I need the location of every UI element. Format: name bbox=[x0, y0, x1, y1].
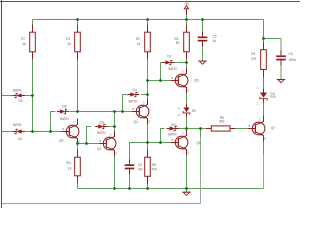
svg-text:D8: D8 bbox=[99, 120, 103, 124]
svg-text:C: C bbox=[182, 132, 184, 136]
svg-text:R4: R4 bbox=[251, 52, 255, 56]
svg-text:A: A bbox=[178, 106, 180, 110]
diode D8 bbox=[95, 126, 98, 128]
node D4 leg bbox=[121, 110, 124, 113]
wire D2 left leg bbox=[161, 63, 165, 81]
svg-text:B: B bbox=[133, 107, 135, 111]
node D6 leg bbox=[49, 130, 52, 133]
svg-text:B: B bbox=[172, 76, 174, 80]
wire rail to R2 bbox=[147, 20, 149, 33]
wire node riser bbox=[200, 129, 202, 139]
svg-text:D2: D2 bbox=[167, 54, 171, 58]
svg-text:1k: 1k bbox=[137, 42, 141, 46]
svg-text:B: B bbox=[100, 139, 102, 143]
svg-text:D10: D10 bbox=[171, 123, 176, 127]
diode D4 bbox=[127, 94, 130, 96]
power +5V symbol bbox=[186, 9, 188, 15]
wire node row to Q4 base bbox=[78, 111, 132, 113]
wire input to D11 bbox=[2, 131, 14, 133]
wire Q5 emitter to D9 bbox=[186, 88, 188, 104]
wire Q7 emitter down bbox=[263, 141, 265, 156]
node R5 riser bbox=[199, 127, 202, 130]
wire D9 to node bbox=[186, 116, 188, 129]
wire D6 to node bbox=[70, 111, 78, 113]
resistor R4 bbox=[263, 42, 265, 50]
node Q2E R10 bbox=[76, 142, 79, 145]
wire rail to C5 bbox=[202, 20, 204, 38]
diode D10 bbox=[167, 128, 170, 130]
svg-text:C: C bbox=[73, 121, 75, 125]
wire to Q5 base bbox=[148, 80, 171, 82]
wire Q6 collector bbox=[186, 129, 188, 137]
wire long riser (pale) bbox=[200, 138, 202, 204]
svg-text:BAT54: BAT54 bbox=[13, 88, 21, 92]
wire +5V top rail bbox=[33, 19, 264, 21]
diode D2 bbox=[162, 62, 165, 64]
svg-text:BAT54: BAT54 bbox=[97, 131, 105, 135]
wire D5 to node bbox=[22, 95, 32, 97]
node rail ground bbox=[185, 187, 188, 190]
svg-text:470: 470 bbox=[152, 167, 157, 171]
wire D8 left leg bbox=[87, 127, 92, 144]
resistor R10 bbox=[77, 150, 79, 158]
svg-text:B: B bbox=[249, 124, 251, 128]
svg-text:C: C bbox=[143, 101, 145, 105]
transistor Q2 bbox=[62, 119, 79, 144]
wire to R10 bbox=[77, 144, 79, 158]
resistor R6 bbox=[186, 25, 188, 33]
ground (C5) bbox=[198, 60, 206, 62]
diode D3 bbox=[263, 89, 265, 93]
resistor R1 bbox=[77, 25, 79, 33]
svg-text:100n: 100n bbox=[288, 58, 296, 62]
node D10 leg bbox=[159, 141, 162, 144]
node R6 D2 Q5C bbox=[185, 61, 188, 64]
junction R4 C6 bbox=[262, 37, 265, 40]
svg-text:Q4: Q4 bbox=[134, 120, 139, 124]
diode D5 bbox=[22, 95, 25, 97]
wire D4 to R2 column bbox=[141, 94, 148, 96]
wire Q6 base row to C9 bbox=[130, 143, 171, 165]
wire D11 to Q2 base bbox=[22, 131, 61, 133]
svg-text:D6: D6 bbox=[62, 104, 66, 108]
svg-text:C6: C6 bbox=[288, 52, 292, 56]
wire R5 to Q7 base bbox=[230, 128, 248, 130]
wire rail to ground bbox=[186, 189, 188, 193]
node D8 Q3C bbox=[113, 125, 116, 128]
wire D10 to node bbox=[173, 128, 187, 130]
svg-text:R1: R1 bbox=[66, 37, 70, 41]
wire R1 column bbox=[77, 52, 79, 112]
svg-text:D4: D4 bbox=[133, 88, 137, 92]
junction rail R6 bbox=[185, 18, 188, 21]
junction rail R2 bbox=[146, 18, 149, 21]
svg-text:D11: D11 bbox=[18, 137, 23, 141]
svg-text:C: C bbox=[257, 101, 259, 105]
svg-text:E: E bbox=[116, 152, 118, 156]
wire R4 to D3 bbox=[263, 70, 265, 89]
svg-text:R8: R8 bbox=[152, 163, 156, 167]
node D8 leg bbox=[85, 142, 88, 145]
svg-text:BAT54: BAT54 bbox=[13, 123, 21, 127]
svg-text:Q6: Q6 bbox=[196, 141, 201, 145]
wire Q6 emitter down bbox=[186, 150, 188, 189]
node R2 Q5 base bbox=[146, 79, 149, 82]
wire Q3 emitter down bbox=[114, 151, 116, 189]
wire +5V stem bbox=[186, 14, 188, 19]
svg-text:R2: R2 bbox=[136, 37, 140, 41]
wire Q7 emitter (pale) bbox=[263, 155, 265, 189]
wire emitter rail to Q3 base bbox=[78, 143, 99, 145]
node rail C9 bbox=[128, 187, 131, 190]
svg-text:Q3: Q3 bbox=[97, 147, 102, 151]
svg-text:B: B bbox=[172, 138, 174, 142]
svg-text:BAT54: BAT54 bbox=[60, 117, 68, 121]
wire input to D5 bbox=[2, 95, 14, 97]
wire R10 to bottom rail bbox=[77, 176, 79, 189]
node D2 leg bbox=[159, 79, 162, 82]
svg-text:Q5: Q5 bbox=[194, 78, 199, 82]
svg-text:C: C bbox=[259, 118, 261, 122]
ground (bottom rail) bbox=[182, 191, 190, 193]
wire C6 to ground bbox=[280, 60, 282, 79]
wire C9 to bottom rail bbox=[129, 169, 131, 188]
svg-text:C: C bbox=[182, 70, 184, 74]
wire jog to C6 bbox=[264, 38, 282, 40]
svg-text:C5: C5 bbox=[212, 35, 216, 39]
transistor Q3 bbox=[99, 131, 116, 156]
wire Q4 emitter to R8 bbox=[147, 119, 149, 157]
svg-text:R10: R10 bbox=[66, 161, 71, 165]
wire into D3 bbox=[263, 88, 265, 92]
svg-text:BAT54: BAT54 bbox=[168, 132, 176, 136]
node Q3 column top bbox=[113, 110, 116, 113]
node D11 bbox=[31, 130, 34, 133]
svg-text:1k: 1k bbox=[68, 166, 72, 170]
svg-text:270: 270 bbox=[251, 57, 256, 61]
wire R8 to bottom rail bbox=[147, 176, 149, 189]
wire rail right end bbox=[245, 188, 264, 190]
svg-text:B: B bbox=[63, 127, 65, 131]
wire rail right corner bbox=[263, 20, 265, 39]
wire D3 to Q7 collector bbox=[263, 101, 265, 117]
svg-text:R7: R7 bbox=[21, 37, 25, 41]
junction rail R1 bbox=[76, 18, 79, 21]
svg-text:3k3: 3k3 bbox=[219, 119, 224, 123]
transistor Q4 bbox=[132, 99, 149, 124]
resistor R8 bbox=[147, 150, 149, 158]
transistor Q7 bbox=[248, 116, 265, 141]
svg-text:D5: D5 bbox=[19, 99, 23, 103]
svg-text:Q2: Q2 bbox=[59, 138, 64, 142]
svg-text:47n: 47n bbox=[138, 167, 143, 171]
svg-text:E: E bbox=[188, 89, 190, 93]
wire R7 column bbox=[32, 52, 34, 132]
svg-text:D9: D9 bbox=[192, 109, 196, 113]
wire D2 to R6 node bbox=[173, 62, 187, 64]
svg-text:+5V: +5V bbox=[184, 2, 189, 6]
capacitor C6 bbox=[280, 50, 282, 55]
node D5 bbox=[31, 94, 34, 97]
svg-text:E: E bbox=[149, 120, 151, 124]
resistor R2 bbox=[147, 25, 149, 33]
node D9 D10 Q6C bbox=[185, 127, 188, 130]
svg-text:1k: 1k bbox=[67, 42, 71, 46]
svg-text:1k: 1k bbox=[22, 42, 26, 46]
node rail R8 bbox=[146, 187, 149, 190]
wire node to R5 bbox=[187, 128, 212, 130]
svg-text:C: C bbox=[178, 113, 180, 117]
diode D6 bbox=[57, 111, 60, 113]
capacitor C9 bbox=[129, 159, 131, 164]
wire D10 left leg bbox=[161, 129, 165, 143]
wire rail to R6 bbox=[186, 20, 188, 33]
ground (C6) bbox=[277, 79, 285, 81]
wire Q3 collector column bbox=[114, 112, 116, 132]
wire R2 column bbox=[147, 52, 149, 100]
node Q4E R8 Q6 base bbox=[146, 141, 149, 144]
svg-text:C: C bbox=[110, 133, 112, 137]
svg-text:E: E bbox=[188, 151, 190, 155]
wire rail to R7 bbox=[32, 20, 34, 33]
junction rail C5 bbox=[201, 18, 204, 21]
svg-text:R10: R10 bbox=[270, 95, 276, 99]
svg-text:50: 50 bbox=[176, 41, 180, 45]
svg-text:E: E bbox=[265, 137, 267, 141]
transistor Q5 bbox=[171, 68, 188, 93]
resistor R5 bbox=[206, 128, 211, 130]
wire Q2 emitter drop bbox=[77, 139, 79, 144]
resistor R7 bbox=[32, 25, 34, 33]
svg-text:C9: C9 bbox=[138, 163, 142, 167]
wire D8 to Q3 collector bbox=[102, 126, 115, 128]
svg-text:BAT54: BAT54 bbox=[169, 67, 177, 71]
diode D9 bbox=[186, 104, 188, 108]
wire C5 to ground bbox=[202, 41, 204, 62]
node R1 D6 Q2C bbox=[76, 110, 79, 113]
wire down to C6 bbox=[280, 39, 282, 56]
wire D6 left leg bbox=[51, 112, 56, 132]
node rail Q3E bbox=[113, 187, 116, 190]
svg-text:1u: 1u bbox=[212, 39, 216, 43]
wire down to R4 bbox=[263, 39, 265, 50]
svg-text:E: E bbox=[79, 140, 81, 144]
svg-text:Q7: Q7 bbox=[271, 126, 276, 130]
wire R6 to Q5 collector bbox=[186, 52, 188, 69]
wire bottom return (pale) bbox=[2, 203, 201, 205]
node R2 D4 bbox=[146, 93, 149, 96]
wire D4 left leg bbox=[123, 95, 127, 112]
wire bottom rail bbox=[78, 188, 246, 190]
capacitor C5 bbox=[202, 32, 204, 37]
transistor Q6 bbox=[171, 130, 188, 155]
svg-text:BAT54: BAT54 bbox=[129, 99, 137, 103]
diode D11 bbox=[22, 131, 25, 133]
wire rail to R1 bbox=[77, 20, 79, 33]
svg-text:A: A bbox=[257, 86, 259, 90]
